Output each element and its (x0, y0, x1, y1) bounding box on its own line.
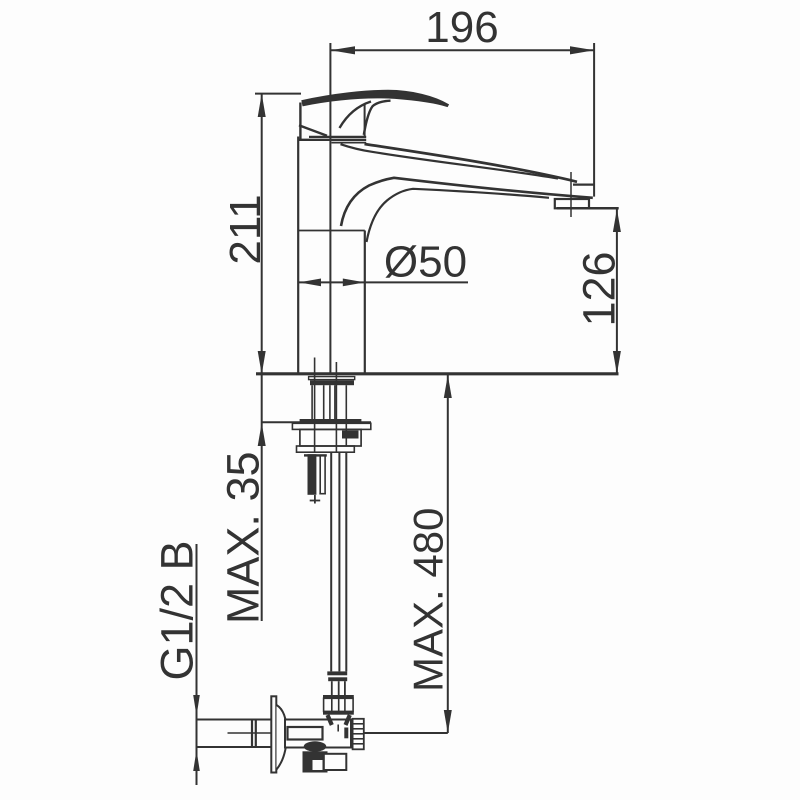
wall flange plate (271, 696, 276, 772)
aerator body (555, 199, 589, 208)
svg-text:MAX. 480: MAX. 480 (405, 508, 452, 692)
nut lower washer (297, 446, 355, 452)
valve knob (353, 719, 364, 750)
G1/2 B lower arrow (193, 750, 200, 771)
dim 50 right arrow (343, 279, 365, 287)
dim 126 line (616, 208, 618, 374)
hollow tube left line (319, 457, 321, 495)
head left edge (299, 103, 301, 141)
nut top strip (292, 423, 370, 429)
pull rod right (335, 362, 337, 452)
MAX.35 lower arrow (258, 423, 266, 446)
union nut rib 2 (338, 698, 340, 711)
union nut bottom bar (323, 711, 354, 714)
ext line 196 left / column centerline (329, 43, 331, 374)
deck / counter line (256, 372, 619, 375)
supply hose line 1 (330, 452, 332, 671)
dim 211 / MAX.35 vertical line (261, 94, 263, 621)
dim 211 bottom arrow (258, 351, 266, 374)
column left edge (297, 137, 299, 374)
union nut body (324, 698, 354, 711)
union nut rib 1 (331, 698, 333, 711)
dim 196 right arrow (570, 46, 594, 54)
valve supply pipe top (198, 719, 272, 721)
valve outlet black block (303, 751, 328, 772)
svg-text:MAX. 35: MAX. 35 (218, 452, 269, 625)
svg-text:196: 196 (425, 3, 498, 52)
head right edge (364, 105, 366, 138)
dim 50 left arrow (299, 279, 321, 287)
valve pipe centerline (228, 732, 284, 734)
ext line 196 right (spout tip) (593, 43, 595, 197)
wall flange dome (277, 705, 287, 770)
head parting line upper (309, 136, 366, 138)
cone right side (346, 715, 350, 725)
mounting flange strip (309, 377, 355, 380)
valve cartridge box (288, 727, 323, 740)
MAX.35 limit line (262, 421, 371, 423)
pipe joint line 2 (255, 720, 257, 748)
union nut top bar (323, 695, 354, 698)
hollow tube right line (324, 457, 326, 495)
head front diagonal (299, 125, 327, 136)
rod tip vertical (314, 495, 316, 504)
neck inner curve (367, 189, 550, 242)
svg-text:G1/2 B: G1/2 B (152, 540, 203, 680)
dim 126 top arrow (613, 209, 621, 232)
MAX.480 dim line (447, 375, 449, 734)
G1/2 B vertical line (196, 544, 198, 785)
spout tip top line (573, 184, 595, 186)
spout bottom edge / neck outer curve (341, 178, 593, 226)
dim diameter 50 line (299, 281, 468, 283)
MAX.480 bottom ext line (364, 732, 448, 734)
valve outlet white notch (313, 760, 323, 770)
hollow tube bottom (319, 493, 326, 495)
spout top lower line (341, 144, 559, 178)
svg-text:126: 126 (574, 251, 625, 326)
dim 211 top ext line (255, 93, 301, 95)
union nut rib 3 (344, 698, 346, 711)
dim 126 bottom arrow (613, 351, 621, 374)
shank washer black bar (300, 419, 362, 423)
dim 126 top ext line / aerator bottom (557, 207, 619, 210)
spout top edge (365, 144, 578, 182)
nut black detail (342, 431, 359, 439)
G1/2 B upper arrow (193, 695, 200, 716)
rod tip cross tick (310, 500, 321, 502)
MAX.480 top arrow (444, 375, 452, 398)
nut body (300, 429, 361, 446)
valve outlet right box (324, 754, 347, 770)
head arc B (364, 101, 391, 135)
dim 211 top arrow (258, 94, 266, 117)
cone neck (337, 725, 339, 732)
pull rod black tube (308, 454, 317, 495)
MAX.480 bottom arrow (444, 710, 452, 733)
head parting line lower (332, 142, 367, 144)
hose connector band 1 (327, 671, 347, 675)
aerator centerline (570, 172, 572, 217)
svg-text:Ø50: Ø50 (384, 238, 467, 287)
pull rod black tube top (304, 454, 327, 456)
hose connector band 2 (328, 677, 347, 681)
valve body (285, 720, 351, 748)
pull rod left (314, 358, 316, 453)
supply hose line 2 (338, 452, 340, 671)
column joint line (298, 230, 365, 232)
dim 196 left arrow (331, 46, 355, 54)
faucet lever handle (302, 90, 448, 106)
supply hose line 3 (345, 452, 347, 671)
pipe segment lines (332, 681, 345, 695)
threaded shank lines (312, 385, 346, 446)
dim 196 line (331, 49, 595, 51)
column right edge (364, 231, 366, 374)
valve outlet ellipse (304, 741, 327, 751)
head parting line full (298, 139, 366, 141)
cone left side (328, 715, 332, 725)
svg-text:211: 211 (221, 194, 270, 264)
mounting flange black bar (310, 380, 354, 385)
pipe joint line 1 (251, 720, 253, 748)
valve black tick (344, 728, 348, 739)
head arc A (340, 102, 372, 129)
valve knob rungs (353, 724, 364, 744)
valve supply pipe bottom (198, 746, 272, 748)
